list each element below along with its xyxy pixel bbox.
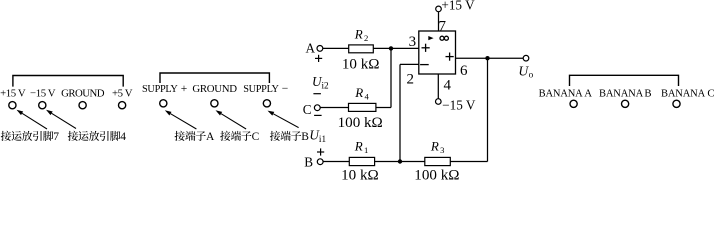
svg-text:100 kΩ: 100 kΩ [338, 115, 383, 131]
svg-text:B: B [304, 155, 313, 170]
svg-text:6: 6 [460, 63, 468, 79]
svg-text:+: + [181, 83, 188, 95]
svg-text:BANANA: BANANA [539, 89, 584, 100]
svg-text:A: A [206, 131, 215, 143]
svg-text:A: A [305, 40, 315, 55]
svg-text:+5 V: +5 V [112, 87, 133, 99]
svg-text:1: 1 [364, 145, 368, 155]
svg-text:3: 3 [409, 34, 417, 50]
svg-text:10 kΩ: 10 kΩ [341, 167, 379, 181]
svg-text:i1: i1 [319, 134, 327, 144]
svg-text:C: C [252, 131, 260, 143]
svg-text:R: R [354, 26, 363, 41]
svg-text:R: R [354, 139, 363, 154]
svg-text:3: 3 [440, 145, 444, 155]
svg-text:SUPPLY: SUPPLY [142, 84, 178, 95]
svg-text:4: 4 [444, 78, 452, 94]
svg-text:+15 V: +15 V [441, 0, 475, 12]
svg-text:GROUND: GROUND [192, 83, 237, 95]
svg-text:4: 4 [120, 131, 126, 143]
svg-text:BANANA: BANANA [661, 89, 706, 100]
svg-text:4: 4 [365, 91, 370, 101]
svg-text:SUPPLY: SUPPLY [243, 84, 279, 95]
svg-text:100 kΩ: 100 kΩ [414, 167, 459, 181]
svg-text:BANANA: BANANA [599, 89, 644, 100]
svg-text:7: 7 [438, 19, 446, 35]
svg-text:2: 2 [407, 72, 415, 88]
svg-text:R: R [430, 139, 439, 154]
svg-text:A: A [584, 88, 592, 100]
svg-text:−15 V: −15 V [30, 87, 56, 99]
svg-text:C: C [707, 88, 714, 100]
svg-text:−15 V: −15 V [442, 98, 476, 113]
svg-text:GROUND: GROUND [61, 87, 105, 99]
svg-text:10 kΩ: 10 kΩ [342, 56, 380, 72]
svg-text:2: 2 [364, 33, 368, 43]
svg-text:B: B [301, 131, 309, 143]
svg-text:B: B [644, 88, 651, 100]
svg-text:+15 V: +15 V [0, 87, 26, 99]
svg-text:o: o [529, 70, 534, 80]
svg-text:7: 7 [53, 131, 59, 143]
svg-text:−: − [282, 83, 289, 95]
svg-text:C: C [303, 102, 312, 117]
svg-text:R: R [354, 85, 363, 100]
svg-text:i2: i2 [322, 81, 330, 91]
